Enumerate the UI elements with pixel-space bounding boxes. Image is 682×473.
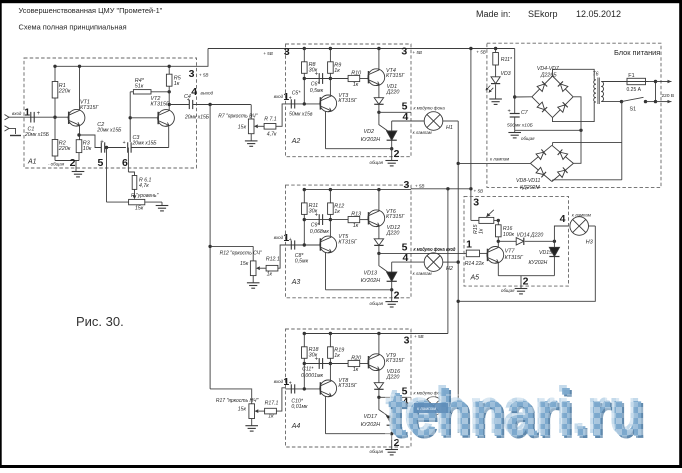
svg-text:H1: H1 bbox=[446, 125, 453, 131]
svg-text:H2: H2 bbox=[446, 266, 453, 272]
svg-text:0,5мк: 0,5мк bbox=[295, 258, 309, 264]
svg-text:+: + bbox=[123, 140, 126, 146]
svg-text:общая: общая bbox=[370, 160, 384, 165]
svg-text:КТ315Г: КТ315Г bbox=[386, 214, 405, 220]
svg-text:вход: вход bbox=[274, 94, 284, 99]
svg-text:4: 4 bbox=[402, 252, 408, 264]
svg-text:R11*: R11* bbox=[501, 57, 513, 63]
svg-text:S1: S1 bbox=[630, 107, 637, 113]
svg-text:10к: 10к bbox=[83, 146, 92, 152]
svg-text:Блок питания: Блок питания bbox=[614, 48, 660, 57]
svg-text:к лампам: к лампам bbox=[413, 271, 432, 276]
svg-text:15к: 15к bbox=[240, 261, 249, 267]
svg-text:1к: 1к bbox=[174, 81, 180, 87]
svg-text:220к: 220к bbox=[58, 146, 71, 152]
svg-text:КТ315Г: КТ315Г bbox=[338, 239, 357, 245]
svg-text:R13: R13 bbox=[351, 211, 361, 217]
svg-text:VD13: VD13 bbox=[364, 270, 378, 276]
svg-text:А2: А2 bbox=[291, 138, 301, 145]
svg-text:C5*: C5* bbox=[292, 91, 302, 97]
svg-text:15к: 15к bbox=[238, 407, 247, 413]
svg-text:КД202М: КД202М bbox=[520, 185, 540, 191]
svg-text:вход: вход bbox=[274, 379, 284, 384]
svg-text:+: + bbox=[289, 237, 292, 243]
svg-text:3: 3 bbox=[401, 46, 407, 58]
svg-text:+: + bbox=[315, 72, 319, 78]
svg-text:общая: общая bbox=[521, 136, 535, 141]
svg-text:12.05.2012: 12.05.2012 bbox=[576, 9, 621, 19]
svg-text:A1: A1 bbox=[27, 159, 37, 166]
svg-text:КТ315Г: КТ315Г bbox=[386, 358, 405, 364]
svg-text:1: 1 bbox=[283, 232, 289, 244]
svg-text:51к: 51к bbox=[135, 83, 144, 89]
svg-text:+ 5В: + 5В bbox=[263, 51, 273, 56]
svg-text:15к: 15к bbox=[135, 206, 144, 212]
svg-text:общая: общая bbox=[370, 301, 384, 306]
svg-text:1к: 1к bbox=[353, 82, 359, 88]
svg-text:2: 2 bbox=[70, 157, 76, 169]
svg-text:4: 4 bbox=[560, 213, 566, 225]
svg-text:VD8-VD11: VD8-VD11 bbox=[516, 178, 541, 184]
svg-text:КУ202Н: КУ202Н bbox=[361, 278, 381, 284]
svg-text:50мк x15в: 50мк x15в bbox=[289, 111, 313, 117]
svg-text:F1: F1 bbox=[628, 73, 634, 79]
svg-text:220к: 220к bbox=[58, 89, 71, 95]
svg-text:20мк x15Б: 20мк x15Б bbox=[184, 115, 210, 121]
svg-text:КУ202Н: КУ202Н bbox=[361, 137, 381, 143]
svg-text:R17.1: R17.1 bbox=[265, 400, 279, 406]
svg-text:общая: общая bbox=[370, 449, 384, 454]
svg-text:+: + bbox=[315, 357, 319, 363]
svg-text:3: 3 bbox=[473, 197, 479, 209]
svg-text:КТ315Г: КТ315Г bbox=[338, 383, 357, 389]
svg-text:1: 1 bbox=[24, 106, 30, 118]
svg-text:C9*: C9* bbox=[311, 222, 321, 228]
svg-text:+ 5В: + 5В bbox=[476, 50, 486, 55]
svg-text:0,5мк: 0,5мк bbox=[310, 88, 324, 94]
svg-text:15к: 15к bbox=[238, 124, 247, 130]
svg-text:0,068мк: 0,068мк bbox=[310, 229, 330, 235]
svg-text:R14 22к: R14 22к bbox=[465, 261, 485, 267]
svg-text:КУ202Н: КУ202Н bbox=[529, 260, 548, 266]
svg-text:H3: H3 bbox=[586, 240, 593, 246]
svg-text:100к: 100к bbox=[503, 232, 515, 238]
svg-text:220 В: 220 В bbox=[662, 93, 675, 99]
svg-text:Д220: Д220 bbox=[386, 230, 400, 236]
svg-text:КТ315Г: КТ315Г bbox=[386, 73, 405, 79]
svg-text:4: 4 bbox=[191, 86, 197, 98]
svg-text:VD2: VD2 bbox=[364, 129, 375, 135]
svg-text:КТ315Г: КТ315Г bbox=[151, 101, 170, 107]
svg-text:1к: 1к bbox=[353, 367, 359, 373]
svg-text:+ 5В: + 5В bbox=[474, 189, 484, 194]
svg-text:VD14 Д220: VD14 Д220 bbox=[517, 233, 544, 239]
svg-text:Т6: Т6 bbox=[593, 72, 599, 78]
svg-text:1: 1 bbox=[466, 239, 472, 251]
svg-text:C6*: C6* bbox=[311, 81, 321, 87]
svg-text:0.25 А: 0.25 А bbox=[627, 87, 642, 93]
svg-text:R10: R10 bbox=[351, 70, 361, 76]
svg-text:20мк x15Б: 20мк x15Б bbox=[132, 141, 158, 147]
svg-text:5: 5 bbox=[97, 157, 103, 169]
svg-text:1к: 1к bbox=[334, 353, 340, 359]
svg-text:+: + bbox=[508, 109, 511, 115]
svg-text:R17 "яркость НЧ": R17 "яркость НЧ" bbox=[216, 398, 259, 404]
svg-text:1: 1 bbox=[283, 376, 289, 388]
svg-text:к модулю фона: к модулю фона bbox=[414, 105, 446, 110]
svg-text:А4: А4 bbox=[291, 423, 301, 430]
svg-text:2: 2 bbox=[394, 148, 400, 160]
svg-text:1к: 1к bbox=[334, 209, 340, 215]
svg-text:R20: R20 bbox=[351, 355, 361, 361]
svg-text:SEkorp: SEkorp bbox=[528, 9, 558, 19]
svg-text:к модулю фона вход: к модулю фона вход bbox=[414, 247, 456, 252]
svg-text:VD3: VD3 bbox=[501, 71, 511, 77]
svg-text:0,0001мк: 0,0001мк bbox=[301, 373, 323, 379]
svg-text:1к: 1к bbox=[268, 414, 274, 420]
svg-text:1к: 1к bbox=[334, 68, 340, 74]
svg-text:20мк x15Б: 20мк x15Б bbox=[24, 132, 50, 138]
svg-text:C11*: C11* bbox=[302, 366, 314, 372]
svg-text:вход: вход bbox=[274, 235, 284, 240]
svg-text:КТ315Г: КТ315Г bbox=[338, 98, 357, 104]
svg-text:R "уровень": R "уровень" bbox=[131, 193, 158, 199]
svg-text:КТ315Г: КТ315Г bbox=[505, 255, 524, 261]
svg-text:вход: вход bbox=[12, 111, 22, 116]
svg-text:C7: C7 bbox=[521, 110, 529, 116]
svg-text:Усовершенствованная ЦМУ "Пром: Усовершенствованная ЦМУ "Прометей-1" bbox=[19, 6, 163, 15]
svg-text:к лампам: к лампам bbox=[490, 157, 509, 162]
svg-text:- общая: - общая bbox=[48, 162, 65, 167]
svg-text:общая: общая bbox=[501, 288, 515, 293]
svg-text:4: 4 bbox=[402, 111, 408, 123]
svg-text:VD17: VD17 bbox=[364, 414, 378, 420]
svg-text:2: 2 bbox=[523, 276, 529, 288]
svg-text:КУ202Н: КУ202Н bbox=[361, 422, 381, 428]
svg-text:+ 5В: + 5В bbox=[414, 334, 424, 339]
svg-text:0,01мк: 0,01мк bbox=[291, 404, 308, 410]
svg-text:Д226Б: Д226Б bbox=[540, 73, 557, 79]
svg-text:+: + bbox=[289, 381, 292, 387]
svg-text:2: 2 bbox=[394, 289, 400, 301]
svg-text:Схема полная принципиальная: Схема полная принципиальная bbox=[19, 23, 127, 32]
svg-text:3: 3 bbox=[403, 179, 409, 191]
svg-text:500мк x10Б: 500мк x10Б bbox=[507, 123, 533, 129]
svg-text:R 7.1: R 7.1 bbox=[264, 117, 277, 123]
svg-text:20мк x15Б: 20мк x15Б bbox=[96, 127, 122, 133]
svg-text:+ 5В: + 5В bbox=[412, 50, 422, 55]
svg-text:4,7к: 4,7к bbox=[267, 132, 277, 138]
svg-text:А5: А5 bbox=[470, 275, 480, 282]
svg-text:3: 3 bbox=[284, 46, 290, 58]
svg-text:1к: 1к bbox=[267, 272, 273, 278]
svg-text:Д220: Д220 bbox=[386, 89, 400, 95]
svg-text:+ 5В: + 5В bbox=[415, 184, 425, 189]
svg-text:Made in:: Made in: bbox=[476, 9, 511, 19]
svg-text:3: 3 bbox=[189, 68, 195, 80]
svg-text:6: 6 bbox=[122, 157, 128, 169]
svg-text:к лампам: к лампам bbox=[417, 406, 436, 411]
svg-text:VD15: VD15 bbox=[539, 250, 552, 256]
svg-text:1: 1 bbox=[283, 91, 289, 103]
svg-text:3: 3 bbox=[404, 335, 410, 347]
svg-text:R12 "яркость СЧ": R12 "яркость СЧ" bbox=[220, 250, 262, 256]
svg-text:А3: А3 bbox=[291, 279, 301, 286]
svg-text:+ 5В: + 5В bbox=[199, 73, 209, 78]
svg-text:1к: 1к bbox=[479, 228, 485, 234]
svg-text:выход: выход bbox=[201, 91, 214, 96]
svg-text:4,7к: 4,7к bbox=[139, 183, 149, 189]
svg-text:R7 "яркость ВЧ": R7 "яркость ВЧ" bbox=[218, 114, 257, 120]
svg-text:КТ315Г: КТ315Г bbox=[80, 105, 99, 111]
svg-text:к лампам: к лампам bbox=[413, 130, 432, 135]
svg-text:+: + bbox=[315, 213, 319, 219]
svg-text:1к: 1к bbox=[353, 223, 359, 229]
svg-text:Рис. 30.: Рис. 30. bbox=[76, 314, 124, 329]
svg-text:VT7: VT7 bbox=[505, 249, 516, 255]
svg-text:+: + bbox=[37, 111, 41, 117]
svg-text:R12.1: R12.1 bbox=[266, 256, 280, 262]
